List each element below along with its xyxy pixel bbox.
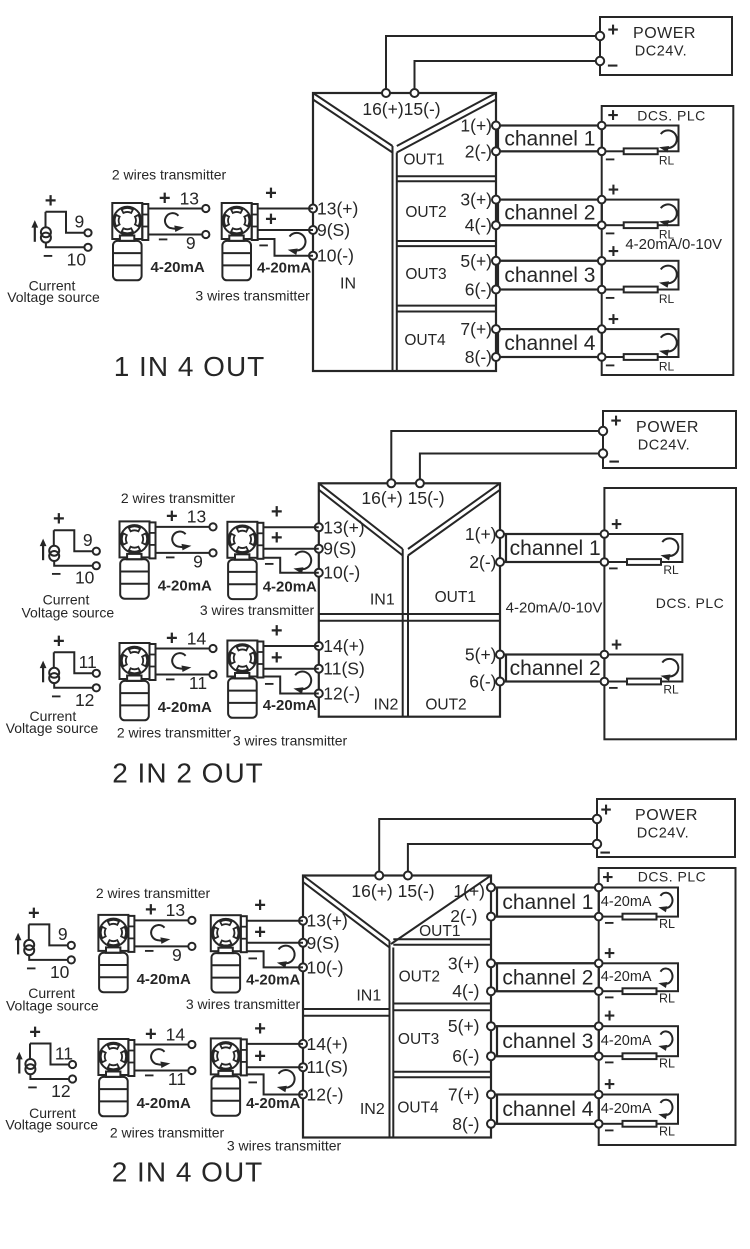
svg-text:3 wires transmitter: 3 wires transmitter <box>186 996 301 1012</box>
svg-text:14(+): 14(+) <box>323 636 364 656</box>
svg-text:16(+)15(-): 16(+)15(-) <box>362 99 440 119</box>
svg-text:7(+): 7(+) <box>448 1085 480 1105</box>
svg-text:−: − <box>264 555 274 574</box>
svg-text:−: − <box>248 949 258 968</box>
svg-text:3 wires transmitter: 3 wires transmitter <box>200 602 315 618</box>
svg-text:RL: RL <box>659 1057 675 1071</box>
svg-text:−: − <box>28 1078 38 1097</box>
svg-text:12: 12 <box>75 690 94 710</box>
svg-text:4-20mA: 4-20mA <box>246 1095 300 1112</box>
svg-text:channel 2: channel 2 <box>510 657 601 680</box>
svg-text:5(+): 5(+) <box>448 1016 480 1036</box>
svg-text:3(+): 3(+) <box>460 190 492 210</box>
svg-text:+: + <box>271 527 283 549</box>
svg-text:14: 14 <box>166 1024 186 1044</box>
svg-text:+: + <box>602 868 613 889</box>
svg-text:IN1: IN1 <box>356 988 381 1005</box>
svg-text:1(+): 1(+) <box>453 881 485 901</box>
svg-text:−: − <box>605 288 615 307</box>
svg-text:DC24V.: DC24V. <box>635 44 687 60</box>
svg-text:4-20mA: 4-20mA <box>263 578 317 595</box>
svg-text:2 IN 4 OUT: 2 IN 4 OUT <box>112 1157 264 1188</box>
svg-text:OUT4: OUT4 <box>397 1100 439 1117</box>
svg-text:4-20mA: 4-20mA <box>601 894 652 910</box>
svg-text:3(+): 3(+) <box>448 953 480 973</box>
svg-text:+: + <box>254 1018 266 1040</box>
svg-text:+: + <box>254 1046 266 1068</box>
svg-text:2 wires transmitter: 2 wires transmitter <box>112 167 227 183</box>
svg-text:9: 9 <box>83 530 93 550</box>
svg-text:−: − <box>605 150 615 169</box>
svg-text:+: + <box>166 506 178 528</box>
svg-text:−: − <box>26 959 36 978</box>
svg-text:4-20mA: 4-20mA <box>601 1033 652 1049</box>
svg-text:4-20mA: 4-20mA <box>158 577 212 594</box>
svg-text:+: + <box>53 508 65 530</box>
svg-text:7(+): 7(+) <box>460 319 492 339</box>
svg-text:10: 10 <box>50 962 70 982</box>
svg-text:2 wires transmitter: 2 wires transmitter <box>110 1125 225 1141</box>
svg-text:9: 9 <box>75 212 85 232</box>
svg-text:DC24V.: DC24V. <box>638 438 690 454</box>
svg-text:channel 1: channel 1 <box>510 537 601 560</box>
svg-text:4-20mA: 4-20mA <box>150 259 204 276</box>
svg-text:13: 13 <box>180 188 199 208</box>
svg-text:+: + <box>607 20 618 41</box>
svg-text:Voltage source: Voltage source <box>21 605 114 621</box>
svg-text:+: + <box>271 501 283 523</box>
svg-text:OUT1: OUT1 <box>419 923 460 940</box>
svg-text:3 wires transmitter: 3 wires transmitter <box>195 288 310 304</box>
svg-text:Voltage source: Voltage source <box>7 289 100 305</box>
svg-text:−: − <box>165 670 175 689</box>
svg-text:8(-): 8(-) <box>465 347 492 367</box>
svg-text:OUT2: OUT2 <box>405 204 446 221</box>
svg-text:POWER: POWER <box>636 419 699 436</box>
svg-text:−: − <box>609 559 619 578</box>
svg-text:OUT1: OUT1 <box>435 589 476 606</box>
svg-text:RL: RL <box>663 682 679 696</box>
svg-text:DCS. PLC: DCS. PLC <box>638 869 707 885</box>
svg-text:POWER: POWER <box>633 25 696 42</box>
svg-text:−: − <box>604 1053 614 1072</box>
svg-text:6(-): 6(-) <box>452 1046 479 1066</box>
svg-text:16(+) 15(-): 16(+) 15(-) <box>351 881 434 901</box>
svg-text:+: + <box>166 627 178 649</box>
svg-text:13(+): 13(+) <box>307 911 348 931</box>
svg-text:DC24V.: DC24V. <box>637 826 689 842</box>
svg-text:1(+): 1(+) <box>465 524 497 544</box>
svg-text:OUT3: OUT3 <box>398 1031 439 1048</box>
svg-text:13(+): 13(+) <box>317 199 358 219</box>
svg-text:2 IN 2 OUT: 2 IN 2 OUT <box>112 758 264 789</box>
svg-text:RL: RL <box>659 992 675 1006</box>
svg-text:4-20mA: 4-20mA <box>601 1101 652 1117</box>
svg-text:OUT2: OUT2 <box>399 968 440 985</box>
svg-text:+: + <box>608 241 619 262</box>
svg-text:+: + <box>604 943 615 964</box>
svg-text:4-20mA: 4-20mA <box>137 1095 191 1112</box>
svg-text:OUT2: OUT2 <box>425 697 466 714</box>
svg-text:3 wires transmitter: 3 wires transmitter <box>227 1137 342 1153</box>
svg-text:−: − <box>248 1073 258 1092</box>
svg-text:−: − <box>604 1121 614 1140</box>
svg-text:4-20mA: 4-20mA <box>158 699 212 716</box>
svg-text:8(-): 8(-) <box>452 1114 479 1134</box>
svg-text:−: − <box>51 687 61 706</box>
svg-text:14: 14 <box>187 628 207 648</box>
svg-text:+: + <box>265 182 277 204</box>
svg-text:5(+): 5(+) <box>465 645 497 665</box>
svg-text:11: 11 <box>168 1069 186 1089</box>
svg-text:10(-): 10(-) <box>307 957 344 977</box>
svg-text:channel 3: channel 3 <box>504 264 595 287</box>
svg-text:−: − <box>608 452 619 473</box>
svg-text:−: − <box>599 843 610 864</box>
svg-text:channel 1: channel 1 <box>502 891 593 914</box>
svg-text:channel 2: channel 2 <box>502 966 593 989</box>
svg-text:channel 4: channel 4 <box>504 332 595 355</box>
svg-text:2(-): 2(-) <box>469 552 496 572</box>
svg-text:channel 2: channel 2 <box>504 201 595 224</box>
svg-text:2 wires transmitter: 2 wires transmitter <box>96 885 211 901</box>
svg-text:−: − <box>43 246 53 265</box>
svg-text:−: − <box>609 679 619 698</box>
svg-text:1(+): 1(+) <box>460 116 492 136</box>
svg-text:+: + <box>28 902 40 924</box>
svg-text:POWER: POWER <box>635 807 698 824</box>
svg-text:−: − <box>259 236 269 255</box>
svg-text:9(S): 9(S) <box>323 539 356 559</box>
svg-text:+: + <box>254 921 266 943</box>
svg-text:+: + <box>29 1022 41 1044</box>
svg-text:RL: RL <box>663 563 679 577</box>
svg-text:11: 11 <box>55 1043 73 1063</box>
svg-text:11: 11 <box>79 652 97 672</box>
svg-text:+: + <box>610 411 621 432</box>
svg-text:+: + <box>53 630 65 652</box>
svg-text:4-20mA/0-10V: 4-20mA/0-10V <box>506 600 603 617</box>
svg-text:4(-): 4(-) <box>465 215 492 235</box>
svg-text:+: + <box>271 620 283 642</box>
svg-text:10(-): 10(-) <box>323 563 360 583</box>
svg-text:−: − <box>605 224 615 243</box>
svg-text:+: + <box>604 1006 615 1027</box>
svg-text:IN2: IN2 <box>374 697 399 714</box>
svg-text:5(+): 5(+) <box>460 251 492 271</box>
svg-text:+: + <box>45 190 57 212</box>
svg-text:−: − <box>607 56 618 77</box>
svg-text:4-20mA: 4-20mA <box>137 971 191 988</box>
svg-text:12(-): 12(-) <box>323 684 360 704</box>
svg-text:10(-): 10(-) <box>317 246 354 266</box>
svg-text:9: 9 <box>58 924 68 944</box>
svg-text:9: 9 <box>172 945 182 965</box>
svg-text:10: 10 <box>67 249 87 269</box>
svg-text:RL: RL <box>659 917 675 931</box>
svg-text:channel 1: channel 1 <box>504 127 595 150</box>
svg-text:16(+) 15(-): 16(+) 15(-) <box>361 488 444 508</box>
svg-text:−: − <box>604 914 614 933</box>
svg-text:DCS. PLC: DCS. PLC <box>637 108 706 124</box>
svg-text:2(-): 2(-) <box>465 141 492 161</box>
svg-text:+: + <box>607 106 618 127</box>
svg-text:10: 10 <box>75 568 95 588</box>
svg-text:6(-): 6(-) <box>469 672 496 692</box>
svg-text:+: + <box>608 310 619 331</box>
svg-text:4(-): 4(-) <box>452 981 479 1001</box>
svg-text:+: + <box>611 515 622 536</box>
svg-text:4-20mA: 4-20mA <box>257 260 311 277</box>
svg-text:12: 12 <box>51 1081 70 1101</box>
svg-text:IN: IN <box>340 276 356 293</box>
svg-text:12(-): 12(-) <box>307 1085 344 1105</box>
svg-text:9: 9 <box>186 233 196 253</box>
svg-text:3 wires transmitter: 3 wires transmitter <box>233 733 348 749</box>
svg-text:Voltage source: Voltage source <box>5 1116 98 1132</box>
svg-text:13: 13 <box>187 507 206 527</box>
svg-text:channel 4: channel 4 <box>502 1098 593 1121</box>
svg-text:14(+): 14(+) <box>307 1034 348 1054</box>
svg-text:OUT3: OUT3 <box>405 266 446 283</box>
svg-text:+: + <box>145 1023 157 1045</box>
svg-text:9(S): 9(S) <box>307 933 340 953</box>
svg-text:4-20mA/0-10V: 4-20mA/0-10V <box>625 236 722 253</box>
svg-text:−: − <box>158 230 168 249</box>
svg-text:RL: RL <box>659 359 675 373</box>
svg-text:−: − <box>51 565 61 584</box>
svg-text:6(-): 6(-) <box>465 280 492 300</box>
svg-text:4-20mA: 4-20mA <box>601 969 652 985</box>
svg-text:+: + <box>265 209 277 231</box>
svg-text:+: + <box>611 635 622 656</box>
svg-text:+: + <box>254 895 266 917</box>
svg-text:IN2: IN2 <box>360 1101 385 1118</box>
svg-text:DCS. PLC: DCS. PLC <box>656 595 725 611</box>
svg-text:11(S): 11(S) <box>323 659 365 679</box>
svg-text:−: − <box>604 988 614 1007</box>
svg-text:IN1: IN1 <box>370 591 395 608</box>
svg-text:−: − <box>264 675 274 694</box>
svg-text:OUT4: OUT4 <box>404 332 446 349</box>
svg-text:9: 9 <box>193 551 203 571</box>
svg-text:OUT1: OUT1 <box>403 152 444 169</box>
svg-text:1 IN 4 OUT: 1 IN 4 OUT <box>114 351 266 382</box>
svg-text:+: + <box>145 899 157 921</box>
svg-text:+: + <box>600 800 611 821</box>
svg-text:11(S): 11(S) <box>307 1057 349 1077</box>
svg-text:−: − <box>165 548 175 567</box>
svg-text:−: − <box>144 942 154 961</box>
svg-text:+: + <box>271 647 283 669</box>
svg-text:+: + <box>608 180 619 201</box>
svg-text:13: 13 <box>166 900 185 920</box>
svg-text:+: + <box>159 187 171 209</box>
svg-text:11: 11 <box>189 673 207 693</box>
svg-text:+: + <box>604 1075 615 1096</box>
svg-text:−: − <box>144 1066 154 1085</box>
svg-text:2 wires transmitter: 2 wires transmitter <box>117 725 232 741</box>
svg-text:−: − <box>605 356 615 375</box>
svg-text:Voltage source: Voltage source <box>6 997 99 1013</box>
svg-text:9(S): 9(S) <box>317 220 350 240</box>
svg-text:2 wires transmitter: 2 wires transmitter <box>121 490 236 506</box>
svg-text:RL: RL <box>659 292 675 306</box>
svg-text:RL: RL <box>659 1124 675 1138</box>
svg-text:13(+): 13(+) <box>323 517 364 537</box>
svg-text:RL: RL <box>659 154 675 168</box>
svg-text:4-20mA: 4-20mA <box>263 697 317 714</box>
svg-text:Voltage source: Voltage source <box>6 720 99 736</box>
svg-text:4-20mA: 4-20mA <box>246 972 300 989</box>
svg-text:channel 3: channel 3 <box>502 1030 593 1053</box>
